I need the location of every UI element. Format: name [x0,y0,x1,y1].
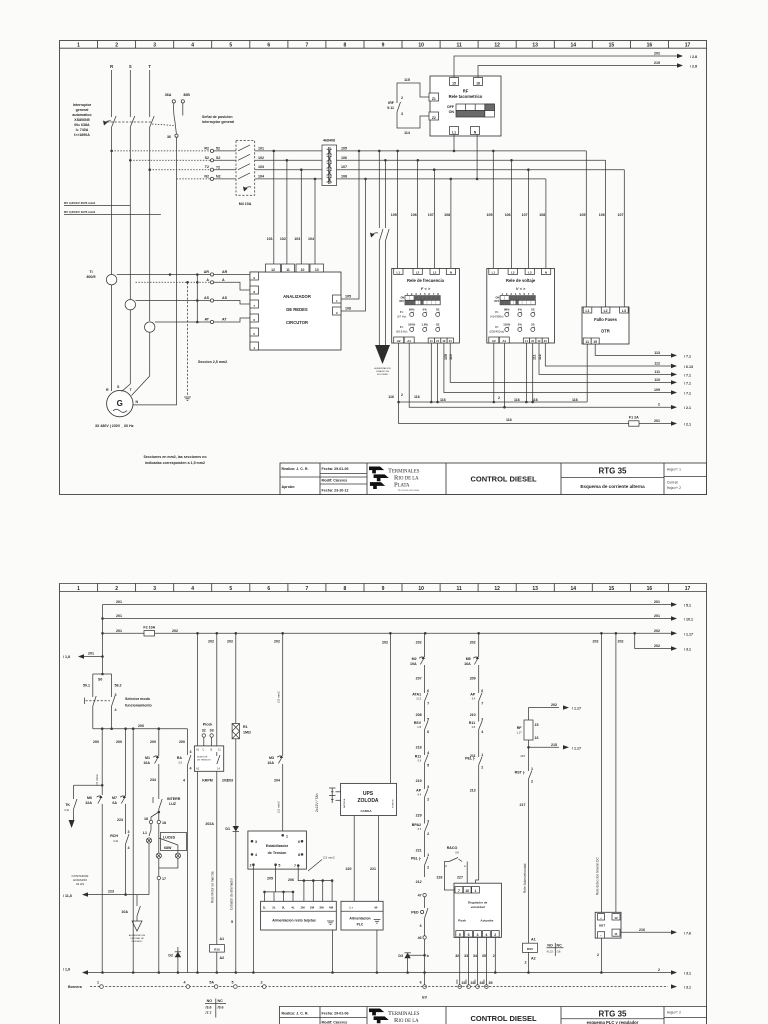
svg-text:A1: A1 [196,748,200,752]
svg-text:MONITOR: MONITOR [197,757,208,759]
page 2 title block [279,1007,706,1024]
svg-text:10: 10 [301,268,305,272]
svg-text:1L: 1L [263,906,267,910]
svg-text:Rele deteccion tension DC: Rele deteccion tension DC [596,857,600,895]
svg-text:11: 11 [614,932,618,936]
relay coil RF 1.17 [517,703,581,762]
svg-text:L1: L1 [452,130,456,134]
svg-text:105: 105 [391,213,397,217]
svg-text:AS: AS [222,296,228,300]
svg-text:D1: D1 [225,827,230,831]
svg-text:98%: 98% [504,308,510,312]
svg-text:7: 7 [306,586,309,592]
svg-text:109: 109 [444,354,448,360]
svg-text:M5: M5 [466,657,471,661]
svg-text:104: 104 [258,174,264,178]
svg-text:111: 111 [654,370,660,374]
wire DBT minus to bus [597,938,603,974]
svg-text:DBT: DBT [599,924,605,928]
svg-text:202: 202 [274,640,280,644]
svg-text:12: 12 [494,586,500,592]
svg-text:Rele de frecuencia: Rele de frecuencia [407,278,445,283]
contact RST [515,762,533,943]
svg-text:116: 116 [388,395,394,399]
svg-text:Realizo: J. C. R.: Realizo: J. C. R. [282,467,309,471]
contact IRF 9.11 [387,78,438,135]
svg-text:CARGA: CARGA [361,809,373,813]
svg-text:V<: V< [495,310,499,314]
svg-text:11: 11 [430,339,433,343]
svg-text:36: 36 [167,135,171,139]
text contador horario [72,874,90,886]
bus 200 rail [93,724,188,730]
svg-text:16: 16 [535,736,539,740]
svg-text:F2 10A: F2 10A [143,626,155,630]
svg-text:101: 101 [258,146,264,150]
terminal 47 [418,893,427,905]
svg-text:6: 6 [420,981,422,985]
svg-text:/ 5.1: / 5.1 [684,604,691,608]
svg-text:221: 221 [416,849,422,853]
svg-text:automatico: automatico [72,113,92,117]
regulator Estabilizador de Tension [248,831,307,869]
svg-text:201: 201 [116,629,122,633]
svg-text:ON: ON [449,110,455,114]
svg-text:3X 480V | 230V _ 60 Hz: 3X 480V | 230V _ 60 Hz [95,424,134,428]
svg-text:36B: 36B [183,93,190,97]
svg-text:2S: 2S [436,323,440,327]
relay F frequency relay (Rele de frecuencia) [392,269,460,344]
svg-text:(63.8 Hz): (63.8 Hz) [396,330,408,334]
svg-text:116: 116 [506,418,512,422]
bus 201 rail b [103,614,694,622]
svg-text:2,5 mm2: 2,5 mm2 [277,691,281,703]
svg-text:RSV: RSV [414,721,422,725]
svg-text:F1 2A: F1 2A [629,416,639,420]
svg-text:C: C [203,748,205,752]
relay KRPM monitor de tension [194,723,223,783]
svg-text:11: 11 [286,268,290,272]
table NO/NC RSV [547,943,564,956]
svg-text:A1: A1 [407,339,411,343]
svg-text:/ 2.1: / 2.1 [684,423,691,427]
svg-text:215: 215 [551,743,557,747]
svg-text:16A: 16A [267,761,274,765]
svg-text:6: 6 [481,689,483,693]
svg-text:L2: L2 [511,270,515,274]
svg-text:N2: N2 [204,174,209,178]
svg-text:226: 226 [437,876,443,880]
wire RF N to bus 108 [476,135,478,179]
svg-text:ALIMENTACION: ALIMENTACION [129,934,146,937]
svg-text:111: 111 [533,354,537,360]
svg-text:M-: M- [375,906,379,910]
contact RCH 9.10 [110,830,129,895]
wire R2/S2/T2/N2 feeders [112,146,322,180]
bus 107 [337,165,625,171]
svg-text:14: 14 [571,586,577,592]
svg-text:3: 3 [190,750,192,754]
svg-text:234: 234 [150,778,156,782]
svg-text:3M: 3M [319,906,324,910]
wire AT [155,318,250,324]
svg-text:108: 108 [345,307,351,311]
svg-text:/ 7.1: / 7.1 [684,392,691,396]
svg-text:15: 15 [452,81,456,85]
breaker M1 16A and lights branch [143,729,159,796]
svg-text:16: 16 [647,43,653,49]
svg-text:110: 110 [449,354,453,360]
svg-text:velocidad: velocidad [471,905,485,909]
svg-text:IRF: IRF [388,101,395,105]
svg-text:2x12V / 7Ah: 2x12V / 7Ah [315,793,319,812]
svg-text:A1: A1 [531,938,536,942]
svg-text:7: 7 [458,889,460,893]
svg-text:109: 109 [654,388,660,392]
svg-text:AS: AS [204,296,210,300]
svg-text:115: 115 [404,78,410,82]
svg-text:116: 116 [414,395,420,399]
wire AR [117,270,250,276]
svg-text:9.11: 9.11 [387,106,394,110]
svg-text:10A: 10A [121,910,128,914]
wire 200 branch M6 [93,729,102,795]
svg-text:L1: L1 [492,270,496,274]
svg-text:AT: AT [204,318,209,322]
svg-text:202: 202 [470,641,476,645]
wire 110 to /7.1 [444,344,691,386]
svg-text:72: 72 [216,166,220,170]
svg-text:24: 24 [544,339,547,343]
bornera terminal rail [68,981,691,990]
svg-text:3: 3 [427,820,429,824]
svg-text:212: 212 [416,880,422,884]
svg-text:ALIMENTACION: ALIMENTACION [374,367,391,370]
svg-text:general: general [76,108,89,112]
svg-text:200: 200 [179,740,185,744]
svg-text:216: 216 [639,928,645,932]
svg-text:N: N [136,400,139,404]
UPS ZOLODA [341,783,397,815]
svg-text:1M: 1M [300,906,305,910]
svg-text:6: 6 [267,586,270,592]
svg-text:108: 108 [444,213,450,217]
wire 213 down to regulador [476,780,479,887]
svg-text:CONTROL DIESEL: CONTROL DIESEL [470,475,537,484]
bus 105 [337,146,587,152]
svg-text:7: 7 [294,864,296,868]
wire 202 branch to /3.1 [635,633,691,651]
svg-text:9: 9 [382,43,385,49]
svg-text:34 HS: 34 HS [76,882,84,886]
svg-text:A1: A1 [502,339,506,343]
svg-text:TERMINALES: TERMINALES [388,468,420,475]
svg-text:L3: L3 [433,270,437,274]
svg-text:106: 106 [599,213,605,217]
node T phase line [148,64,151,321]
contact RSV /.15 [414,709,429,750]
svg-text:1: 1 [97,981,99,985]
wires M group gather [303,879,334,901]
switch socorro tap [370,151,389,345]
wire 221 [370,816,379,902]
svg-text:10: 10 [418,43,424,49]
svg-text:N: N [545,270,547,274]
svg-text:33: 33 [210,729,214,733]
contact R11 0.8 [415,742,429,783]
svg-text:2: 2 [525,961,527,965]
svg-text:102: 102 [280,237,286,241]
svg-text:M7: M7 [112,796,117,800]
svg-text:/ 1,8: / 1,8 [63,968,70,972]
svg-text:Alimentacion: Alimentacion [349,917,370,921]
svg-text:/7.7: /7.7 [206,1011,212,1015]
circuit breaker Interruptor general automatico [72,103,174,137]
relay V voltage relay (Rele de voltaje) [487,269,555,344]
svg-text:Modif: Cáceres: Modif: Cáceres [322,1021,348,1024]
svg-text:215: 215 [654,61,660,65]
svg-text:202A: 202A [205,822,214,826]
svg-text:5: 5 [427,764,429,768]
svg-text:112: 112 [538,354,542,360]
svg-text:/ 6.13: / 6.13 [684,365,693,369]
svg-text:INCENDIO: INCENDIO [132,941,143,943]
svg-text:L2: L2 [416,270,420,274]
page 1 column header strip 1-17 [60,41,707,49]
svg-text:5: 5 [427,718,429,722]
svg-text:A1: A1 [220,937,225,941]
svg-text:L3: L3 [622,309,626,313]
svg-text:2: 2 [261,981,263,985]
svg-text:R2: R2 [204,146,209,150]
svg-text:/3.6: /3.6 [206,1006,212,1010]
wire rele motor en marcha [205,633,228,944]
svg-text:N2: N2 [216,175,221,179]
svg-text:RSV: RSV [527,947,533,951]
svg-text:LUZ: LUZ [169,802,177,806]
svg-text:2: 2 [493,954,495,958]
svg-text:5: 5 [459,933,461,937]
svg-text:6: 6 [468,933,470,937]
svg-text:229: 229 [416,814,422,818]
wire 202 from RF 15 to /2.8 [454,52,697,78]
svg-text:−: − [600,934,602,938]
svg-text:3.12: 3.12 [416,698,421,701]
svg-text:16A: 16A [464,662,471,666]
svg-text:N: N [450,270,452,274]
svg-text:107: 107 [428,213,434,217]
svg-text:201: 201 [116,614,122,618]
svg-text:T: T [148,64,151,69]
svg-text:S2: S2 [205,156,209,160]
wire RF L1 to bus 105 [453,135,455,151]
wire 215 to /1.17 [520,743,581,758]
svg-text:110%: 110% [503,323,511,327]
svg-text:Regulador de: Regulador de [468,901,488,905]
svg-text:202: 202 [654,629,660,633]
svg-text:221: 221 [370,867,376,871]
svg-text:F<: F< [400,310,404,314]
wire 220 [346,816,355,902]
svg-text:AT: AT [222,318,227,322]
svg-text:206: 206 [288,878,294,882]
svg-text:33: 33 [464,954,468,958]
svg-text:33: 33 [471,981,475,985]
svg-text:1: 1 [77,586,80,592]
svg-text:113: 113 [654,351,660,355]
svg-text:Seccion 2,5 mm2: Seccion 2,5 mm2 [198,360,227,364]
transformer 468408 [322,139,337,186]
svg-text:/ 1.17: / 1.17 [684,632,693,636]
svg-text:indicadas corresponden a 1,5 m: indicadas corresponden a 1,5 mm2 [145,461,205,465]
wire 215 from RF 18 to /2.8 [478,61,697,78]
svg-text:58.2: 58.2 [115,684,122,688]
svg-text:Rele de voltaje: Rele de voltaje [506,278,536,283]
svg-text:205: 205 [267,877,273,881]
svg-text:227: 227 [457,876,463,880]
svg-text:3: 3 [153,586,156,592]
svg-text:50.1: 50.1 [83,684,90,688]
svg-text:F>: F> [400,325,404,329]
svg-text:4: 4 [183,779,185,783]
svg-text:2: 2 [115,586,118,592]
switch 36A/36B position signal [165,93,234,179]
svg-text:4: 4 [128,846,130,850]
svg-text:202: 202 [551,703,557,707]
svg-text:RACO: RACO [447,846,458,850]
node R phase line [110,64,113,275]
svg-text:D2: D2 [168,954,173,958]
svg-text:RIO DE LA: RIO DE LA [394,475,419,482]
svg-text:13: 13 [315,268,319,272]
wire 109 to /7.1 [444,344,691,396]
svg-text:35: 35 [482,954,486,958]
svg-text:/ 1.17: / 1.17 [572,746,581,750]
wire 2 to /2.1 [401,343,691,410]
svg-text:/9.6: /9.6 [218,1006,224,1010]
svg-text:21: 21 [531,339,534,343]
svg-text:INTERR: INTERR [167,797,181,801]
svg-text:106: 106 [505,213,511,217]
svg-text:2M: 2M [310,906,315,910]
svg-text:202: 202 [618,640,624,644]
svg-text:12: 12 [614,916,618,920]
svg-text:Fallo Fases: Fallo Fases [594,317,617,322]
svg-text:18: 18 [476,81,480,85]
svg-text:3: 3 [401,112,403,116]
fuse 10A with socorro arrow [121,895,145,943]
svg-text:8: 8 [344,586,347,592]
svg-text:200: 200 [150,740,156,744]
svg-text:68W: 68W [164,846,172,850]
svg-text:NC: NC [218,999,224,1003]
svg-text:RCH: RCH [110,834,118,838]
svg-text:6.4: 6.4 [472,698,476,701]
relay coil RSV [523,938,538,974]
svg-text:R: R [106,388,109,392]
svg-text:A: A [206,278,209,282]
node S phase line [129,64,132,300]
svg-text:Fecha: 29-01-06: Fecha: 29-01-06 [322,1012,349,1016]
svg-text:18: 18 [162,821,166,825]
svg-text:3: 3 [427,785,429,789]
svg-text:/ 7.1: / 7.1 [684,381,691,385]
svg-text:6: 6 [427,730,429,734]
generator G [95,179,177,428]
svg-text:215: 215 [520,754,525,758]
svg-text:2S: 2S [436,308,440,312]
svg-text:1: 1 [531,767,533,771]
svg-text:6: 6 [267,43,270,49]
fuse F2 10A on 202 rail [103,626,156,637]
svg-text:2: 2 [115,43,118,49]
wire CT common star point [196,273,199,323]
contact PEL [411,845,429,884]
svg-text:Picek: Picek [458,919,466,923]
svg-text:OFF: OFF [494,300,499,303]
svg-text:Hoja nº: 1: Hoja nº: 1 [667,468,681,472]
svg-text:102: 102 [258,156,264,160]
text cable notes RV 0,6/1KV [64,201,161,215]
svg-text:0%: 0% [423,308,428,312]
relay DTR Fallo Fases [582,307,629,344]
svg-text:21: 21 [436,339,439,343]
fuse F1 2A and wire 201 to /2.1 [397,401,691,427]
svg-text:S0: S0 [98,678,102,682]
svg-text:OFF: OFF [447,105,455,109]
svg-text:/ 1,8: / 1,8 [63,655,70,659]
svg-text:103: 103 [294,237,300,241]
svg-text:8: 8 [298,853,300,857]
svg-text:Esquema de corriente alterna: Esquema de corriente alterna [580,484,645,489]
svg-text:204: 204 [274,779,280,783]
svg-text:A2: A2 [397,339,401,343]
svg-text:Cebador de alternador: Cebador de alternador [230,877,234,910]
contact AP 6.4 [470,685,484,717]
svg-text:9.8: 9.8 [455,851,459,855]
page 2 column header strip 1-17 [60,584,707,592]
svg-text:2: 2 [427,798,429,802]
switch S0 Selector modo funcionamiento [83,673,153,729]
svg-text:4: 4 [255,853,257,857]
svg-text:CUADRO DE: CUADRO DE [376,370,390,373]
svg-text:3: 3 [481,718,483,722]
svg-text:0%: 0% [518,308,523,312]
contact PEL second [465,742,483,793]
svg-text:108: 108 [341,174,347,178]
svg-text:2,5 mm2: 2,5 mm2 [277,801,281,813]
svg-text:5: 5 [231,920,233,924]
svg-text:202: 202 [382,641,388,645]
svg-text:223: 223 [108,890,114,894]
text secciones note [143,455,207,465]
svg-text:AR: AR [222,270,228,274]
svg-text:15: 15 [593,340,597,344]
svg-text:5: 5 [229,43,232,49]
terminal 46 [418,936,427,985]
wire KRPM A1 feeder [196,632,199,974]
svg-text:Actuador: Actuador [480,919,494,923]
svg-text:NO: NO [547,944,553,948]
svg-text:S2: S2 [216,156,220,160]
svg-text:DE TENSION: DE TENSION [197,760,211,762]
svg-text:RF: RF [517,726,523,730]
svg-text:TI: TI [89,270,92,274]
bus 202 rail [155,629,693,637]
contact ATA1 3.12 [412,685,429,717]
svg-text:4: 4 [427,751,429,755]
svg-text:/ 2.1: / 2.1 [684,406,691,410]
